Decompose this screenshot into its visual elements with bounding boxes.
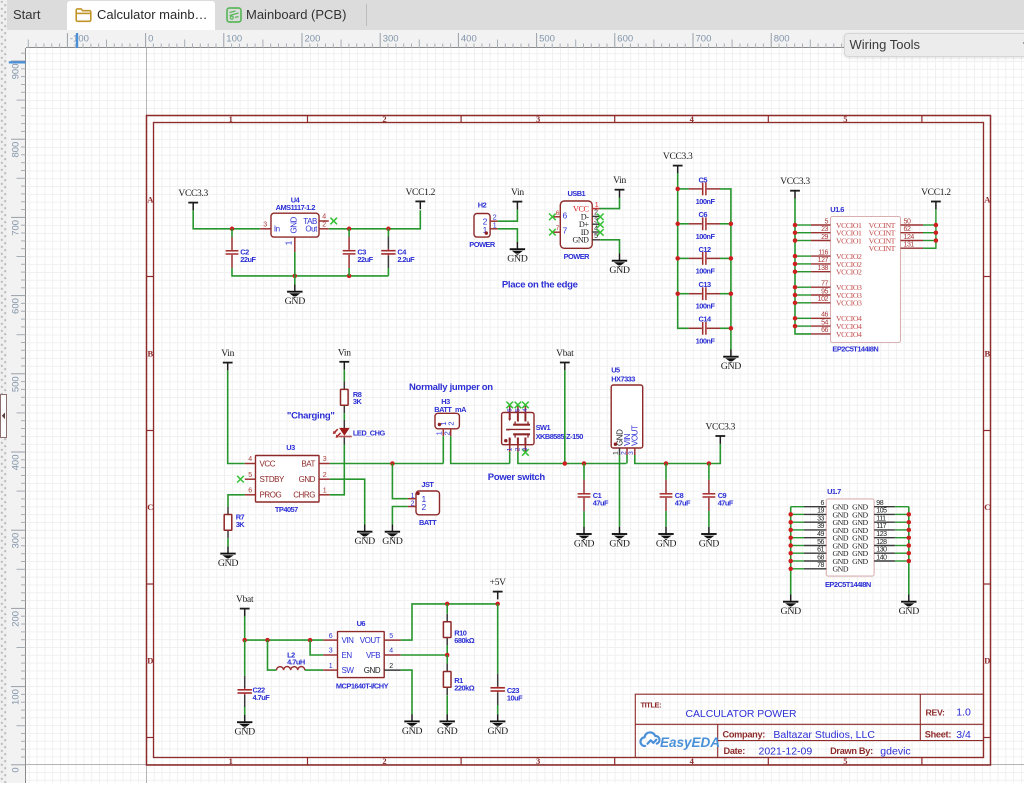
svg-text:VCCINT: VCCINT — [869, 244, 896, 253]
svg-text:220kΩ: 220kΩ — [454, 683, 474, 692]
power Vbat (main rail) — [556, 349, 574, 370]
resistor R8 3K — [341, 382, 363, 414]
svg-text:200: 200 — [305, 34, 321, 45]
svg-text:BATT: BATT — [419, 518, 437, 527]
svg-text:3K: 3K — [236, 520, 246, 529]
capacitor C8 47uF — [660, 464, 691, 527]
wire — [795, 232, 811, 234]
U1.6 left pin 102 — [811, 296, 831, 303]
U5 pin 1 GND — [613, 448, 620, 455]
svg-text:Drawn By:: Drawn By: — [830, 746, 873, 756]
svg-text:EasyEDA: EasyEDA — [660, 735, 720, 750]
svg-text:H2: H2 — [478, 201, 487, 210]
junction node C8 — [664, 461, 669, 466]
power Vin (USB1) — [613, 176, 626, 197]
svg-text:Vin: Vin — [221, 349, 234, 359]
svg-text:PROG: PROG — [260, 491, 282, 500]
svg-text:B: B — [147, 348, 153, 358]
U1.6 left pin 66 — [811, 327, 831, 334]
junction node GND stem bottom rail — [293, 274, 298, 279]
wire — [895, 506, 909, 508]
ground (U1.7 right) — [899, 595, 920, 618]
svg-text:4.7uH: 4.7uH — [287, 658, 305, 667]
capacitor C12 — [689, 245, 720, 276]
wire Vbat stem — [564, 370, 566, 463]
U1.7 left pin 39 — [804, 523, 826, 530]
svg-text:VCC1.2: VCC1.2 — [921, 188, 951, 198]
wire — [795, 271, 811, 273]
svg-text:19: 19 — [817, 508, 824, 515]
svg-text:7: 7 — [563, 226, 568, 236]
U1.7 right pin 128 — [874, 539, 895, 546]
svg-text:5: 5 — [248, 472, 252, 479]
svg-text:23: 23 — [821, 226, 828, 233]
svg-text:U3: U3 — [286, 443, 295, 452]
svg-text:1.0: 1.0 — [956, 707, 971, 719]
capacitor C14 — [689, 315, 720, 346]
svg-text:2: 2 — [493, 215, 497, 222]
power +5V — [490, 578, 507, 599]
svg-text:47uF: 47uF — [593, 498, 609, 507]
svg-text:LED_CHG: LED_CHG — [353, 428, 386, 437]
svg-text:Vin: Vin — [511, 188, 524, 198]
svg-text:U1.6: U1.6 — [830, 205, 844, 214]
svg-text:VOUT: VOUT — [631, 425, 640, 446]
capacitor C13 — [689, 280, 720, 311]
wire U1.7 right rail to ground — [908, 507, 910, 595]
wire U3 PROG to R7 — [228, 495, 245, 507]
wire H2 pin2 to Vin — [498, 209, 518, 221]
svg-text:77: 77 — [821, 281, 828, 288]
wire — [795, 224, 811, 226]
U3 pin 5 STDBY no-connect — [237, 472, 255, 483]
svg-text:2.2uF: 2.2uF — [397, 255, 415, 264]
svg-text:CHRG: CHRG — [293, 491, 315, 500]
power VCC3.3 (U4 input) — [178, 189, 208, 210]
wire L2 branch — [268, 640, 277, 670]
USB1 pin 6 no-connect — [549, 210, 567, 221]
LED LED_CHG — [333, 413, 386, 444]
U1.6 left pin 127 — [811, 257, 831, 264]
svg-text:Sheet:: Sheet: — [925, 730, 952, 740]
frame column numbers top — [229, 114, 848, 124]
svg-text:Power switch: Power switch — [488, 472, 546, 483]
svg-text:"Charging": "Charging" — [287, 410, 335, 421]
wire C5 left stub — [678, 188, 689, 190]
svg-text:3: 3 — [323, 456, 327, 463]
capacitor C22 4.7uF — [238, 640, 271, 715]
svg-text:124: 124 — [904, 234, 915, 241]
svg-text:4.7uF: 4.7uF — [253, 693, 271, 702]
svg-text:200: 200 — [10, 611, 21, 627]
U1.6 left pin 54 — [811, 319, 831, 326]
wire U3 CHRG to LED chain — [330, 445, 345, 495]
svg-text:C6: C6 — [699, 210, 708, 219]
wire — [795, 240, 811, 242]
wire — [795, 317, 811, 319]
U1.6 right pin 62 — [901, 226, 924, 233]
wire L2 to SW — [305, 669, 323, 671]
U1.6 left pin 77 — [811, 281, 831, 288]
power Vbat (U6) — [236, 595, 254, 616]
svg-text:116: 116 — [818, 249, 828, 256]
U1.7 right pin 130 — [874, 547, 895, 554]
wire R7 to ground — [227, 538, 229, 546]
svg-text:Company:: Company: — [723, 730, 766, 740]
U1.6 left pin 23 — [811, 226, 831, 233]
U4 pin 3 — [260, 222, 271, 229]
junction dots U1.6 left rail — [793, 223, 798, 329]
frame row letters left — [147, 194, 154, 665]
resistor R10 680k — [443, 604, 474, 655]
svg-text:130: 130 — [876, 547, 887, 554]
wire SW1 pin1 down — [509, 452, 511, 464]
svg-text:2: 2 — [447, 422, 456, 426]
svg-text:700: 700 — [696, 34, 712, 45]
wire U1.7 left rail to ground — [790, 507, 792, 595]
svg-text:10uF: 10uF — [507, 693, 523, 702]
svg-text:VCCIO4: VCCIO4 — [836, 330, 862, 339]
svg-text:123: 123 — [876, 531, 887, 538]
svg-text:1: 1 — [229, 756, 233, 766]
svg-text:700: 700 — [10, 220, 21, 236]
power Vin (U3) — [221, 349, 234, 370]
wire U4 pin1 to bottom rail — [294, 252, 296, 276]
wire — [795, 302, 811, 304]
wire — [791, 568, 804, 570]
svg-text:140: 140 — [876, 554, 887, 561]
resistor R1 220k — [443, 655, 474, 714]
svg-text:128: 128 — [876, 539, 887, 546]
svg-text:46: 46 — [821, 312, 828, 319]
svg-text:300: 300 — [10, 533, 21, 549]
svg-text:U6: U6 — [357, 619, 366, 628]
ground (H2) — [507, 242, 528, 265]
svg-text:66: 66 — [821, 327, 828, 334]
svg-text:Out: Out — [305, 225, 318, 234]
wire — [795, 325, 811, 327]
svg-text:5: 5 — [843, 114, 847, 124]
ground (C1) — [574, 527, 595, 550]
junction node L2 tap — [265, 638, 270, 643]
svg-text:6: 6 — [821, 500, 825, 507]
wire C2 to bottom rail — [232, 268, 388, 276]
wire U5 VOUT rail right — [635, 444, 721, 464]
U1.6 left pin 29 — [811, 234, 831, 241]
svg-text:C: C — [984, 502, 990, 512]
junction dots cap bank left rail — [675, 187, 680, 296]
U1.7 right pin 105 — [874, 508, 895, 515]
svg-text:500: 500 — [539, 34, 555, 45]
power VCC3.3 (U5 out) — [705, 423, 735, 444]
wire — [791, 521, 804, 523]
svg-text:GND: GND — [299, 475, 316, 484]
wire — [895, 529, 909, 531]
wire Vin to U3 VCC — [228, 370, 245, 463]
wire cap bank right rail — [720, 189, 731, 350]
svg-text:22uF: 22uF — [357, 255, 373, 264]
U1.6 right pin 50 — [901, 218, 924, 225]
U1.7 right pin 98 — [874, 500, 895, 507]
svg-text:VIN: VIN — [342, 636, 355, 645]
JST pin 1 — [408, 498, 416, 500]
junction node EN tap — [308, 638, 313, 643]
resistor R7 3K — [224, 507, 245, 539]
wire H3 pin2 to rail — [451, 436, 510, 463]
junction node JST tap — [390, 461, 395, 466]
junction node C3 top — [347, 227, 352, 232]
schematic sheet frame — [147, 116, 991, 766]
connector JST BATT — [411, 480, 440, 527]
wire U3 BAT rail — [330, 463, 444, 465]
svg-text:1: 1 — [285, 240, 294, 245]
svg-text:62: 62 — [904, 226, 911, 233]
wire EN tap down — [310, 640, 323, 655]
svg-text:C: C — [147, 502, 153, 512]
svg-text:100nF: 100nF — [696, 336, 716, 345]
svg-text:-100: -100 — [70, 34, 89, 45]
op-amp U1.6 EP2C5T144I8N (FPGA power pins) — [830, 205, 900, 353]
svg-text:1: 1 — [613, 451, 620, 455]
wire — [923, 247, 936, 249]
svg-text:95: 95 — [821, 288, 828, 295]
svg-text:47uF: 47uF — [675, 498, 691, 507]
ground (R7) — [218, 546, 239, 569]
svg-text:EP2C5T144I8N: EP2C5T144I8N — [832, 344, 878, 353]
H2 pin 2 — [490, 215, 498, 222]
svg-text:131: 131 — [904, 242, 915, 249]
wire — [895, 537, 909, 539]
wire C6 right stub — [720, 223, 731, 225]
svg-text:0: 0 — [148, 34, 153, 45]
svg-text:117: 117 — [876, 523, 886, 530]
svg-text:VCC1.2: VCC1.2 — [405, 188, 435, 198]
svg-text:Vbat: Vbat — [236, 595, 254, 605]
USB1 pin 3 D+ no-connect — [592, 218, 603, 228]
svg-text:3: 3 — [536, 756, 540, 766]
ground (U6) — [402, 714, 423, 737]
wire C12 right stub — [720, 257, 731, 259]
wire JST pin2 to ground — [392, 507, 407, 525]
U1.6 left pin 138 — [811, 265, 831, 272]
svg-text:78: 78 — [817, 562, 824, 569]
U1.6 right pin 131 — [901, 242, 924, 249]
svg-text:3/4: 3/4 — [956, 729, 971, 741]
svg-text:CALCULATOR POWER: CALCULATOR POWER — [686, 709, 798, 720]
U5 pin 2 VIN — [620, 448, 627, 455]
SW1 bottom pins 1,2,3 — [507, 445, 530, 456]
frame column numbers bottom — [229, 756, 848, 766]
EasyEDA logo — [640, 732, 720, 750]
svg-text:100nF: 100nF — [696, 232, 716, 241]
wire — [795, 294, 811, 296]
wire — [795, 255, 811, 257]
U1.7 left pin 68 — [804, 554, 826, 561]
wire VCC3.3 to U4 In rail — [193, 210, 260, 228]
U4 pin 1 GND — [285, 237, 295, 252]
svg-text:2021-12-09: 2021-12-09 — [759, 746, 813, 758]
U1.7 right pin 140 — [874, 554, 895, 561]
junction node +5V/C23 — [495, 602, 500, 607]
svg-text:54: 54 — [821, 319, 828, 326]
frame row letters right — [984, 194, 991, 665]
U4 pin 2 Out — [319, 222, 329, 229]
wire — [791, 537, 804, 539]
U3 pin 2 GND — [319, 472, 330, 479]
connector USB1 POWER — [560, 189, 592, 261]
ground (C8) — [656, 527, 677, 550]
svg-text:VOUT: VOUT — [360, 636, 381, 645]
svg-text:6: 6 — [248, 487, 252, 494]
wire U3 GND to ground — [330, 479, 365, 524]
junction node C22 — [242, 638, 247, 643]
svg-text:5: 5 — [389, 633, 393, 640]
svg-text:REV:: REV: — [926, 707, 945, 717]
wire — [795, 263, 811, 265]
U1.7 right pin 117 — [874, 523, 895, 530]
junction node R10 top — [445, 602, 450, 607]
svg-text:POWER: POWER — [469, 240, 496, 249]
wire — [791, 552, 804, 554]
svg-text:111: 111 — [876, 516, 886, 523]
power Vin (LED chain) — [338, 348, 351, 369]
svg-text:800: 800 — [774, 34, 790, 45]
JST pin 2 — [408, 506, 416, 508]
ground (cap bank) — [721, 350, 742, 373]
U1.7 left pin 6 — [804, 500, 826, 507]
svg-text:2: 2 — [422, 502, 427, 512]
U4 pin 4 TAB with no-connect — [319, 214, 337, 225]
U1.7 left pin 33 — [804, 516, 826, 523]
U1.7 right pin 111 — [874, 516, 895, 523]
svg-text:98: 98 — [876, 500, 883, 507]
svg-text:68: 68 — [817, 554, 824, 561]
junction dots U1.6 right rail — [934, 223, 939, 243]
U1.7 left pin 49 — [804, 531, 826, 538]
wire U1.6 right rail — [924, 209, 936, 248]
wire U5 GND to ground (crosses rail) — [619, 455, 621, 527]
power VCC3.3 (cap bank) — [663, 152, 693, 173]
svg-text:B: B — [984, 348, 990, 358]
svg-text:GND: GND — [364, 666, 381, 675]
ground (U1.7 left) — [781, 595, 802, 618]
svg-text:1: 1 — [595, 202, 599, 209]
U1.6 left pin 46 — [811, 312, 831, 319]
switch SW1 XKB8585-Z-150 — [502, 413, 584, 445]
transistor U3 TP4057 — [256, 443, 320, 514]
op-amp U4 AMS1117-1.2 — [271, 195, 319, 237]
svg-text:4: 4 — [248, 456, 252, 463]
svg-text:GND: GND — [573, 236, 590, 245]
svg-text:MCP1640T-I/CHY: MCP1640T-I/CHY — [336, 682, 389, 691]
wire Vbat to VIN node — [245, 616, 324, 640]
wire — [923, 224, 936, 226]
wire H3 pin1 to rail — [442, 436, 444, 463]
svg-text:5: 5 — [825, 218, 829, 225]
U5 pin 3 VOUT — [628, 448, 635, 455]
svg-text:+5V: +5V — [490, 578, 507, 588]
svg-text:102: 102 — [818, 296, 829, 303]
svg-text:AMS1117-1.2: AMS1117-1.2 — [276, 203, 316, 212]
wire U1.6 left rail — [795, 199, 811, 334]
wire — [795, 286, 811, 288]
op-amp U1.7 EP2C5T144I8N (FPGA ground pins) — [825, 487, 874, 589]
wire H2 pin1 to GND — [498, 229, 518, 242]
wire C14 right stub — [720, 327, 731, 329]
capacitor C5 — [689, 175, 720, 206]
capacitor C2 — [226, 237, 257, 268]
svg-text:138: 138 — [818, 265, 829, 272]
wire VFB to divider — [401, 654, 448, 656]
svg-text:Baltazar Studios, LLC: Baltazar Studios, LLC — [773, 729, 875, 741]
svg-text:100: 100 — [10, 689, 21, 705]
svg-text:VCC3.3: VCC3.3 — [178, 189, 208, 199]
svg-text:Vin: Vin — [613, 176, 626, 186]
wire USB1 GND pin to ground — [600, 240, 619, 254]
title block — [635, 694, 983, 757]
svg-text:1: 1 — [329, 663, 333, 670]
U1.7 left pin 19 — [804, 508, 826, 515]
svg-text:2: 2 — [382, 756, 386, 766]
junction dots U1.7 left rail — [788, 512, 793, 571]
power VCC3.3 (U1.6) — [780, 177, 810, 198]
wire — [791, 506, 804, 508]
SW1 top pins 6,5,4 with no-connects — [506, 402, 529, 413]
wire C2 top stub — [231, 229, 233, 237]
wire — [895, 521, 909, 523]
svg-text:C12: C12 — [699, 245, 711, 254]
U1.6 left pin 116 — [811, 249, 831, 256]
connector H3 BATT_mA (jumper) — [434, 397, 467, 435]
svg-text:GND: GND — [833, 565, 849, 574]
wire C13 left stub — [678, 293, 689, 295]
wire C12 left stub — [678, 257, 689, 259]
svg-text:100nF: 100nF — [696, 302, 716, 311]
U6 pin 6 VIN — [323, 633, 337, 640]
svg-text:50: 50 — [904, 218, 911, 225]
svg-text:VCCIO3: VCCIO3 — [836, 299, 862, 308]
svg-text:3: 3 — [263, 222, 267, 229]
svg-text:1: 1 — [493, 223, 497, 230]
wire — [791, 560, 804, 562]
svg-text:100: 100 — [226, 34, 242, 45]
svg-text:127: 127 — [818, 257, 829, 264]
USB1 pin 1 VCC — [592, 202, 599, 209]
wire U5 VIN to rail — [626, 455, 628, 464]
svg-text:EP2C5T144I8N: EP2C5T144I8N — [825, 580, 871, 589]
wire VOUT up to +5V rail — [401, 604, 498, 640]
svg-text:900: 900 — [10, 64, 21, 80]
ground (U5) — [609, 527, 630, 550]
svg-text:3K: 3K — [353, 397, 363, 406]
wire — [791, 545, 804, 547]
wire — [895, 552, 909, 554]
svg-text:3: 3 — [329, 648, 333, 655]
svg-text:2: 2 — [322, 222, 326, 229]
capacitor C3 — [343, 229, 374, 276]
svg-text:SW: SW — [342, 666, 355, 675]
USB1 pin 7 no-connect — [549, 225, 567, 236]
svg-text:22uF: 22uF — [240, 255, 256, 264]
svg-text:1: 1 — [229, 114, 233, 124]
svg-text:SW1: SW1 — [536, 423, 551, 432]
wire SW1 pin2 to Vbat rail — [518, 452, 626, 464]
svg-text:4: 4 — [389, 648, 393, 655]
svg-text:U5: U5 — [611, 366, 620, 375]
svg-text:D: D — [984, 655, 990, 665]
U6 pin 4 VFB — [384, 648, 401, 655]
U1.7 left pin 56 — [804, 539, 826, 546]
